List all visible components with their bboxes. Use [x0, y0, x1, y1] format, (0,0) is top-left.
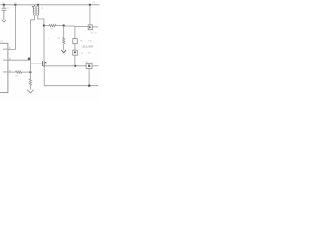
diode D3 mark [74, 51, 76, 53]
resistor R4 vertical [63, 37, 65, 50]
op-amp U1 controller box [0, 43, 8, 92]
wire source to bottom rail [44, 66, 98, 86]
pin 1 text [3, 49, 7, 50]
wire secondary bottom [38, 15, 44, 25]
diode D1 mark [89, 26, 91, 29]
node F junction dot [43, 24, 45, 26]
wire node G down [63, 26, 65, 38]
wire top rail [0, 4, 99, 6]
node G junction dot [63, 24, 65, 26]
capacitor C1 [2, 5, 7, 20]
wire right feedback drop [74, 26, 76, 39]
node A junction dot left [3, 4, 5, 6]
wire U2 down [88, 68, 90, 85]
sensor U2 box [86, 63, 92, 68]
wire long vertical net [30, 20, 32, 79]
ground arrow mid [61, 50, 66, 53]
svg-text:LED/LASER: LED/LASER [82, 46, 94, 49]
wire top to D1 [89, 5, 91, 25]
node E junction dot [29, 71, 31, 73]
wire between boxes [74, 44, 76, 50]
resistor R2 sense vertical [29, 79, 31, 90]
ground arrow bottom [27, 90, 33, 93]
wire pin3 [8, 71, 16, 73]
wire R3 to node G [56, 25, 64, 27]
polarity dot [32, 6, 33, 7]
wire to R3 [44, 25, 49, 27]
diode D1 box [88, 25, 92, 30]
sensor U2 mark [88, 65, 90, 67]
wire output top [75, 25, 88, 27]
wire gate link [31, 63, 43, 65]
ground arrow left [2, 20, 6, 22]
wire node G to right corner [64, 25, 75, 27]
secondary winding [37, 5, 39, 7]
svg-text:gn: gn [64, 54, 66, 56]
wire primary bottom [31, 15, 35, 19]
svg-text:D1 out: D1 out [91, 32, 97, 35]
node C junction dot transformer [37, 4, 39, 6]
node J junction dot bottom [88, 85, 90, 87]
wire source rail [44, 65, 86, 67]
diode D2 box [73, 39, 78, 44]
node H junction dot source [43, 65, 45, 67]
wire U2 out right [92, 65, 98, 67]
pin 2 text [3, 60, 7, 61]
wire D1 out [92, 26, 98, 28]
node I junction dot [74, 65, 76, 67]
pin 3 number [9, 70, 10, 71]
wire R1 to node [22, 71, 31, 73]
wire drain vertical [43, 26, 45, 61]
diode D3 box [73, 50, 78, 55]
pin 1 number [9, 47, 10, 48]
transistor Q2 arrow [45, 62, 47, 64]
svg-text:10k: 10k [88, 40, 91, 42]
node B junction dot [14, 4, 16, 6]
resistor R1 horizontal [16, 71, 22, 73]
transformer core [35, 6, 37, 16]
resistor R3 horizontal [49, 24, 56, 26]
transistor Q2 mosfet [43, 61, 45, 66]
transistor Q1 node blob [28, 58, 31, 61]
wire box3 to node I [74, 55, 76, 66]
transformer T1 [33, 5, 39, 16]
node D junction dot right [89, 4, 91, 6]
pin 2 number [9, 58, 10, 59]
primary winding [33, 5, 35, 7]
wire pin2 gate drive [8, 59, 31, 61]
wire Vcc drop to IC [8, 5, 15, 50]
pin 3 text [3, 71, 7, 72]
